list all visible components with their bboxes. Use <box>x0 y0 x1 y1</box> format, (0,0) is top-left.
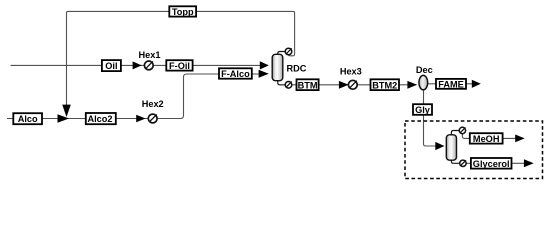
wire Alco feed line <box>7 118 149 120</box>
arrow Oil to Hex1 <box>133 61 142 69</box>
stream label FAME <box>436 79 466 89</box>
wire Dec to FAME <box>427 83 473 85</box>
dashed boundary box around glycerol purification section <box>405 121 543 179</box>
wire Oil feed line <box>11 64 269 66</box>
stream label Gly <box>413 104 432 115</box>
svg-text:Alco2: Alco2 <box>87 114 112 124</box>
arrow into mixer junction from Alco <box>58 114 70 123</box>
stream label Alco2 <box>86 113 116 124</box>
heater Hex1 <box>144 61 153 70</box>
svg-text:F-Alco: F-Alco <box>221 69 250 79</box>
stream label BTM <box>297 79 319 90</box>
svg-text:Hex3: Hex3 <box>340 66 362 76</box>
column B2 (glycerol purification) <box>446 131 459 164</box>
svg-text:Hex1: Hex1 <box>139 50 161 60</box>
wire B2 bottoms to Glycerol <box>466 162 524 164</box>
svg-text:Oil: Oil <box>105 61 117 71</box>
arrow down into mixer junction <box>62 105 71 117</box>
cooler Hex3 <box>348 80 357 89</box>
svg-text:Gly: Gly <box>415 105 431 115</box>
heater Hex2 <box>148 114 157 123</box>
stream label BTM2 <box>371 79 400 90</box>
arrow MeOH product out <box>515 135 525 143</box>
reboiler circle of B2 <box>460 160 466 166</box>
stream label Alco <box>13 113 42 124</box>
svg-text:RDC: RDC <box>287 63 307 73</box>
condenser circle of RDC <box>285 48 292 55</box>
decanter Dec <box>419 75 428 89</box>
arrow F-Alco feed into RDC <box>259 70 269 78</box>
wire Hex2 up to F-Alco and into RDC <box>157 74 259 119</box>
wire Topp recycle: condenser hook up, across top, down to mixer <box>67 11 295 110</box>
stream label Oil <box>102 60 121 71</box>
wire B2 distillate to MeOH <box>462 134 515 139</box>
arrow Alco2 to Hex2 <box>136 115 145 123</box>
stream label Topp <box>169 6 196 16</box>
svg-text:Hex2: Hex2 <box>142 99 164 109</box>
arrow FAME product out <box>472 80 481 88</box>
svg-text:FAME: FAME <box>438 79 464 89</box>
svg-text:Topp: Topp <box>172 7 194 17</box>
arrow F-Oil feed into RDC <box>260 61 269 69</box>
svg-text:Dec: Dec <box>416 65 433 75</box>
reboiler circle of RDC <box>285 82 292 89</box>
stream label MeOH <box>470 133 503 144</box>
svg-text:Glycerol: Glycerol <box>473 159 510 169</box>
arrow BTM to Hex3 <box>339 81 349 89</box>
stream label Glycerol <box>471 158 512 169</box>
condenser circle of B2 <box>459 127 465 133</box>
wire Dec bottom Gly stream down into dashed section <box>424 90 437 147</box>
svg-text:Alco: Alco <box>18 114 38 124</box>
svg-text:F-Oil: F-Oil <box>169 61 190 71</box>
svg-text:BTM: BTM <box>298 80 318 90</box>
arrow Glycerol product out <box>524 159 534 167</box>
arrow Gly feed into column B2 <box>435 142 444 150</box>
svg-text:MeOH: MeOH <box>473 134 500 144</box>
arrow BTM2 into Dec <box>407 81 417 89</box>
stream label F-Oil <box>166 60 192 71</box>
column RDC <box>272 52 285 85</box>
svg-text:BTM2: BTM2 <box>372 80 397 90</box>
wire RDC bottoms to Hex3 and BTM2 <box>292 84 417 86</box>
stream label F-Alco <box>219 68 252 79</box>
